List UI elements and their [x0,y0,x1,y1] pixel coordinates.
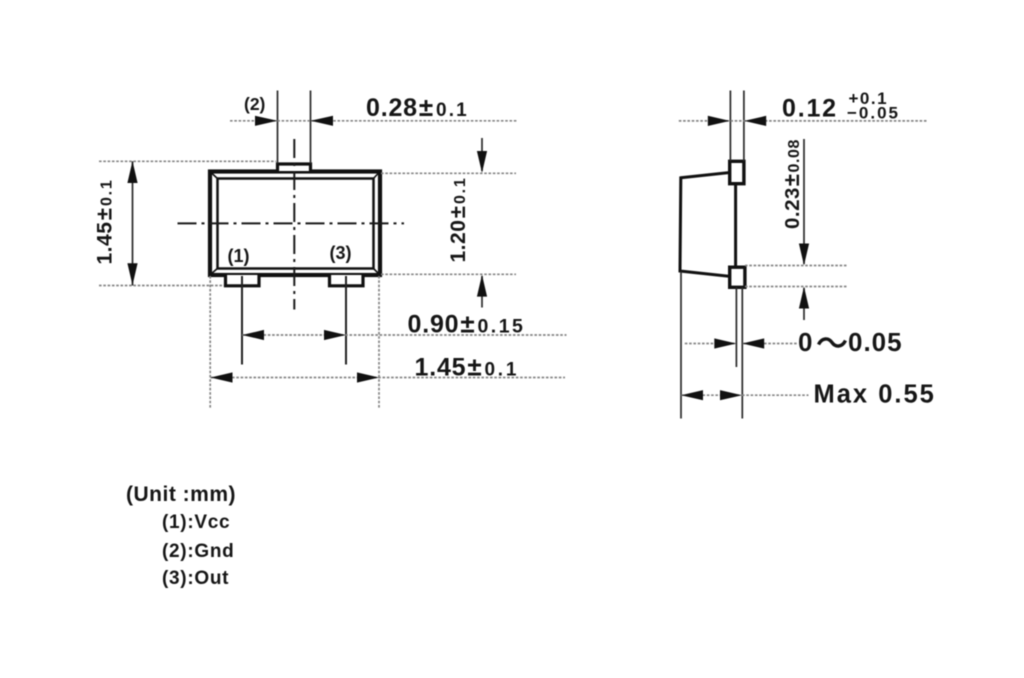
svg-text:(3):Out: (3):Out [162,568,229,589]
svg-text:(1): (1) [228,246,250,266]
svg-text:0.12: 0.12 [782,95,838,123]
svg-text:(2):Gnd: (2):Gnd [162,541,234,562]
svg-text:(2): (2) [244,94,265,114]
svg-text:Max 0.55: Max 0.55 [814,381,936,409]
svg-text:(1):Vcc: (1):Vcc [162,512,230,533]
svg-text:0.05: 0.05 [848,327,903,357]
svg-text:0: 0 [798,327,812,357]
svg-text:(Unit :mm): (Unit :mm) [126,483,236,506]
svg-text:−0.05: −0.05 [847,104,900,123]
svg-text:(3): (3) [330,243,352,263]
